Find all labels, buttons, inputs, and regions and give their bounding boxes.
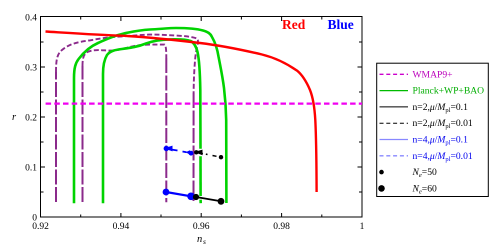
svg-text:n=2,μ/Mpl=0.1: n=2,μ/Mpl=0.1 (413, 102, 469, 114)
svg-text:0.94: 0.94 (113, 222, 130, 232)
svg-text:s: s (203, 237, 206, 245)
svg-text:0.96: 0.96 (193, 222, 210, 232)
svg-text:0: 0 (32, 214, 37, 224)
svg-text:1: 1 (360, 222, 365, 232)
svg-text:0.92: 0.92 (32, 222, 49, 232)
svg-text:0.2: 0.2 (25, 114, 37, 124)
svg-text:0.1: 0.1 (25, 164, 37, 174)
svg-text:0.3: 0.3 (25, 64, 37, 74)
svg-text:Red: Red (282, 17, 306, 32)
svg-text:0.4: 0.4 (25, 14, 37, 24)
svg-text:n: n (197, 234, 202, 245)
svg-text:n=4,μ/Mpl=0.1: n=4,μ/Mpl=0.1 (413, 135, 469, 147)
svg-text:n=2,μ/Mpl=0.01: n=2,μ/Mpl=0.01 (413, 118, 473, 130)
svg-text:0.98: 0.98 (273, 222, 290, 232)
svg-text:n=4,μ/Mpl=0.01: n=4,μ/Mpl=0.01 (413, 151, 473, 163)
svg-text:Blue: Blue (328, 17, 354, 32)
svg-text:WMAP9+: WMAP9+ (413, 69, 453, 80)
svg-text:Ne=50: Ne=50 (412, 167, 438, 179)
svg-text:Ne=60: Ne=60 (412, 183, 438, 195)
svg-text:Planck+WP+BAO: Planck+WP+BAO (413, 86, 485, 97)
